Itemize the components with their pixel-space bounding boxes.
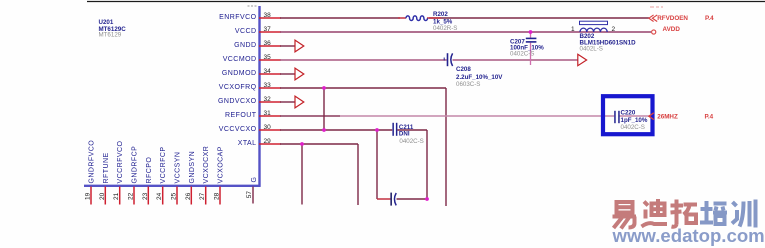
svg-text:35: 35: [264, 54, 272, 61]
svg-text:XTAL: XTAL: [238, 140, 257, 147]
svg-text:G: G: [251, 177, 258, 183]
svg-text:GNDD: GNDD: [234, 42, 256, 49]
svg-text:ENRFVCO: ENRFVCO: [219, 14, 256, 21]
svg-text:GNDSYN: GNDSYN: [189, 151, 196, 184]
svg-text:0402R-S: 0402R-S: [433, 25, 457, 32]
svg-text:C220: C220: [621, 109, 636, 116]
svg-text:GNDRFCP: GNDRFCP: [132, 146, 139, 184]
svg-text:GNDMOD: GNDMOD: [222, 70, 257, 77]
svg-text:37: 37: [264, 26, 272, 33]
svg-text:36: 36: [264, 40, 272, 47]
svg-text:RFTUNE: RFTUNE: [103, 152, 110, 183]
svg-text:REFOUT: REFOUT: [225, 112, 257, 119]
svg-text:0402L-S: 0402L-S: [580, 46, 603, 53]
svg-text:VCCMOD: VCCMOD: [223, 56, 257, 63]
svg-text:P.4: P.4: [705, 15, 714, 22]
svg-text:VCCVCXO: VCCVCXO: [219, 126, 257, 133]
svg-text:GNDRFVCO: GNDRFVCO: [89, 140, 96, 184]
svg-text:VCCRFCP: VCCRFCP: [160, 147, 167, 184]
svg-text:VCCSYN: VCCSYN: [175, 152, 182, 184]
svg-text:38: 38: [264, 12, 272, 19]
svg-text:DNI: DNI: [399, 131, 410, 138]
svg-text:31: 31: [264, 110, 272, 117]
svg-text:26MHZ: 26MHZ: [657, 114, 678, 121]
svg-text:VCCD: VCCD: [235, 28, 257, 35]
svg-text:32: 32: [264, 96, 272, 103]
svg-text:R202: R202: [433, 11, 448, 18]
svg-text:0402C-S: 0402C-S: [510, 51, 534, 58]
svg-text:34: 34: [264, 68, 272, 75]
svg-text:RFVDOEN: RFVDOEN: [657, 15, 688, 22]
svg-text:AVDD: AVDD: [663, 26, 681, 33]
svg-text:RFCPO: RFCPO: [146, 157, 153, 184]
svg-text:P.4: P.4: [705, 114, 714, 121]
svg-text:1: 1: [571, 26, 575, 33]
svg-text:0402C-S: 0402C-S: [399, 138, 423, 145]
svg-text:www.edatop.com: www.edatop.com: [612, 225, 765, 246]
svg-text:29: 29: [264, 138, 272, 145]
svg-text:VCCRFVCO: VCCRFVCO: [117, 141, 124, 184]
svg-text:GNDVCXO: GNDVCXO: [218, 98, 257, 105]
svg-text:57: 57: [246, 191, 253, 199]
svg-text:VCXOFRQ: VCXOFRQ: [219, 84, 257, 91]
svg-text:VCXOCAP: VCXOCAP: [218, 146, 225, 183]
svg-text:30: 30: [264, 124, 272, 131]
svg-text:C208: C208: [456, 66, 471, 73]
svg-text:33: 33: [264, 82, 272, 89]
svg-text:VCXOCXR: VCXOCXR: [203, 146, 210, 184]
svg-text:0402C-S: 0402C-S: [621, 124, 645, 131]
svg-text:0603C-S: 0603C-S: [456, 81, 480, 88]
svg-text:MT6129: MT6129: [99, 32, 122, 39]
svg-text:U201: U201: [99, 19, 114, 26]
svg-text:1pF_10%: 1pF_10%: [621, 117, 648, 124]
svg-text:2: 2: [612, 26, 616, 33]
